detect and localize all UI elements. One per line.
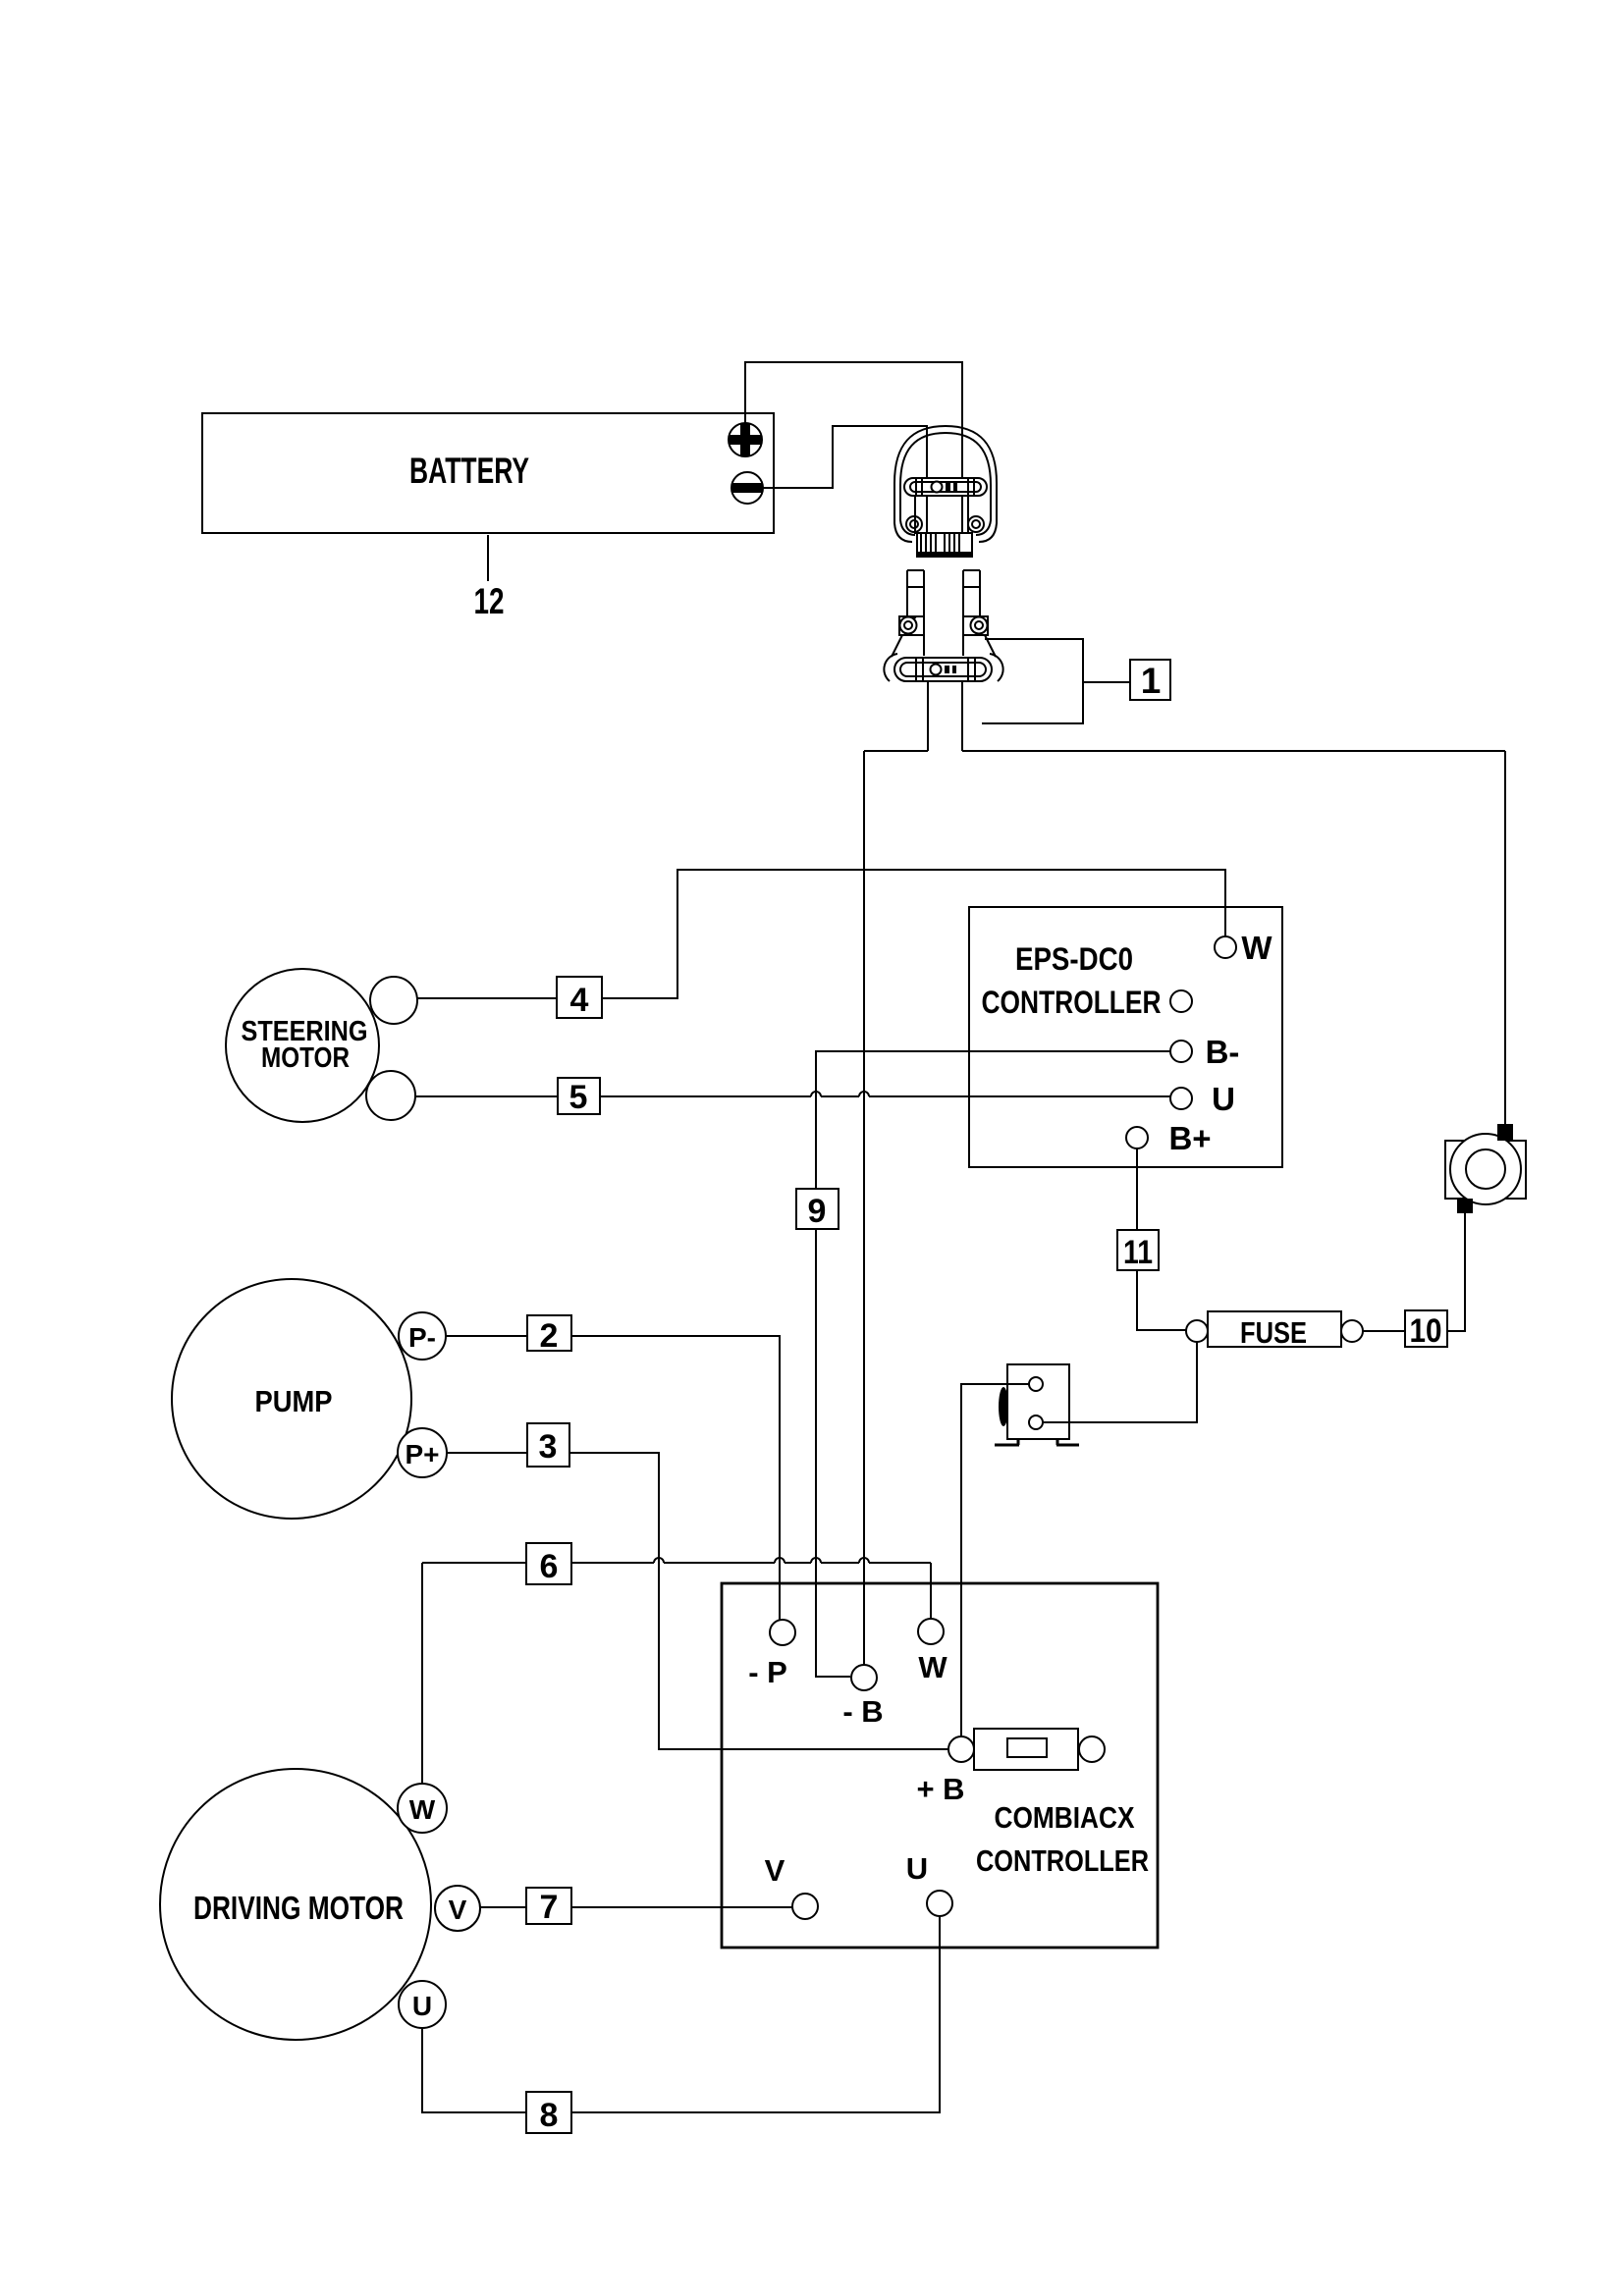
battery minus terminal — [731, 472, 763, 504]
wire minus bus down to -B — [863, 751, 865, 1665]
wire steering top to 4 to eps W — [417, 870, 1225, 998]
svg-text:V: V — [449, 1895, 467, 1925]
label 3 box — [527, 1423, 569, 1467]
svg-text:PUMP: PUMP — [255, 1384, 333, 1418]
svg-text:9: 9 — [808, 1193, 827, 1230]
wire hop on 5 at 831 — [811, 1092, 821, 1096]
wire eps B+ to 11 to fuse — [1137, 1148, 1186, 1330]
label 5 box — [558, 1078, 600, 1114]
pump motor body — [172, 1279, 411, 1519]
svg-text:+ B: + B — [916, 1772, 964, 1806]
svg-text:7: 7 — [540, 1889, 559, 1926]
connector plug upper (battery connector with bail) — [894, 426, 997, 557]
combi terminal -P — [770, 1620, 795, 1645]
wire key switch vertical — [1504, 751, 1506, 1124]
wire P- to 2 to -P — [446, 1336, 780, 1620]
wire hop on 5 at 879 — [859, 1092, 869, 1096]
svg-text:3: 3 — [539, 1428, 558, 1466]
key switch body — [1445, 1141, 1526, 1199]
svg-text:W: W — [918, 1650, 947, 1684]
label 8 box — [526, 2092, 571, 2133]
wire eps B- to 9 down to -B — [816, 1051, 1170, 1677]
svg-text:2: 2 — [540, 1317, 559, 1355]
combi terminal -B — [851, 1665, 877, 1690]
driving motor body — [160, 1769, 431, 2040]
svg-text:EPS-DC0: EPS-DC0 — [1015, 941, 1133, 977]
svg-text:B+: B+ — [1168, 1120, 1211, 1156]
svg-text:U: U — [1212, 1081, 1235, 1117]
svg-text:U: U — [412, 1991, 432, 2021]
wire driving V to 7 to combi V — [480, 1906, 792, 1908]
pump terminal P- circle — [399, 1312, 446, 1360]
svg-text:V: V — [765, 1853, 785, 1888]
wire P+ to 3 to +B — [447, 1453, 948, 1749]
label 2 box — [527, 1315, 571, 1351]
svg-text:10: 10 — [1410, 1312, 1442, 1350]
combi internal fuse right circle — [1079, 1736, 1105, 1762]
steering motor terminal bottom — [366, 1071, 415, 1120]
contactor body — [1007, 1364, 1069, 1439]
svg-text:COMBIACX: COMBIACX — [995, 1800, 1135, 1835]
svg-text:FUSE: FUSE — [1240, 1315, 1307, 1350]
bus wire left (minus) — [864, 750, 928, 752]
wire key switch to 10 — [1447, 1213, 1465, 1331]
eps terminal B- — [1170, 1041, 1192, 1062]
wire 6: driving W up, across with hops, down to combi W — [422, 1563, 931, 1784]
wire battery plus to connector — [745, 362, 962, 482]
svg-text:W: W — [409, 1794, 436, 1825]
pump terminal P+ circle — [398, 1428, 447, 1477]
svg-text:- P: - P — [748, 1655, 787, 1689]
svg-text:5: 5 — [569, 1079, 588, 1116]
label 7 box — [526, 1888, 571, 1924]
fuse left terminal circle — [1186, 1320, 1208, 1342]
battery leader line 12 — [487, 535, 489, 581]
driving motor terminal V circle — [435, 1886, 480, 1931]
label 6 box — [526, 1543, 571, 1584]
connector socket lower — [884, 570, 1002, 681]
svg-text:CONTROLLER: CONTROLLER — [976, 1843, 1149, 1878]
label 11 box — [1117, 1230, 1159, 1270]
svg-text:11: 11 — [1123, 1234, 1153, 1271]
svg-text:MOTOR: MOTOR — [261, 1042, 350, 1074]
eps terminal unnamed — [1170, 990, 1192, 1012]
key switch terminal top — [1497, 1124, 1513, 1141]
key switch terminal bottom — [1457, 1199, 1473, 1213]
eps terminal B+ — [1126, 1127, 1148, 1148]
battery 12 — [202, 413, 774, 533]
connector pins to bus — [928, 681, 962, 751]
wire contactor bottom to fuse — [1043, 1342, 1197, 1422]
contactor terminal top — [1029, 1377, 1043, 1391]
svg-text:1: 1 — [1141, 661, 1162, 701]
svg-text:12: 12 — [474, 581, 505, 621]
svg-text:P+: P+ — [405, 1439, 439, 1469]
wire steering bottom to 5 to eps U (with hops) — [415, 1095, 1170, 1097]
combiacx controller box — [722, 1583, 1158, 1948]
eps controller box — [969, 907, 1282, 1167]
fuse right terminal circle — [1341, 1320, 1363, 1342]
svg-text:W: W — [1241, 930, 1272, 966]
driving motor terminal W circle — [398, 1784, 447, 1833]
svg-text:CONTROLLER: CONTROLLER — [982, 985, 1162, 1020]
eps terminal W — [1215, 936, 1236, 958]
contactor mounting feet — [995, 1439, 1079, 1445]
wire driving U to 8 to combi U — [422, 1916, 940, 2112]
label 1 leader bracket — [982, 639, 1130, 723]
svg-text:6: 6 — [540, 1548, 559, 1585]
wire 10 to fuse — [1363, 1330, 1405, 1332]
battery plus terminal — [729, 423, 762, 456]
svg-text:U: U — [906, 1851, 928, 1886]
label 4 box — [557, 977, 602, 1018]
svg-text:BATTERY: BATTERY — [409, 451, 529, 491]
eps terminal U — [1170, 1088, 1192, 1109]
svg-text:B-: B- — [1206, 1034, 1240, 1070]
svg-text:DRIVING MOTOR: DRIVING MOTOR — [193, 1890, 404, 1926]
svg-text:- B: - B — [842, 1694, 883, 1729]
combi internal fuse body — [974, 1729, 1078, 1770]
combi terminal W — [918, 1619, 944, 1644]
steering motor terminal top — [370, 977, 417, 1024]
label 10 box — [1405, 1310, 1447, 1347]
svg-text:4: 4 — [570, 982, 589, 1019]
contactor terminal bottom — [1029, 1415, 1043, 1429]
bus wire right (plus to key switch) — [962, 750, 1505, 752]
wire hop on 6 at 794 — [775, 1558, 785, 1563]
label 9 box — [796, 1189, 839, 1229]
fuse body — [1208, 1311, 1341, 1347]
wire battery minus to connector — [763, 426, 927, 488]
wire contactor coil top to +B — [961, 1384, 1029, 1736]
svg-text:8: 8 — [540, 2097, 559, 2134]
combi terminal U — [927, 1891, 952, 1916]
wire hop on 6 at 671 — [654, 1558, 664, 1563]
steering motor body — [226, 969, 379, 1122]
wire hop on 6 at 831 — [811, 1558, 821, 1563]
label 1 box — [1130, 660, 1170, 700]
combi terminal V — [792, 1894, 818, 1919]
combi terminal +B circle — [948, 1736, 974, 1762]
wire hop on 6 at 878 — [859, 1558, 869, 1563]
driving motor terminal U circle — [399, 1981, 446, 2028]
svg-text:P-: P- — [408, 1322, 436, 1353]
